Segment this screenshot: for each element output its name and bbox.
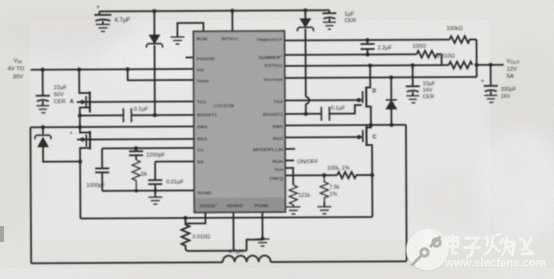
wire QB source drop (79, 162, 81, 219)
wire sense node rail (80, 217, 372, 219)
capacitor 4.7uF (94, 5, 130, 32)
node VIN at VBIAS jog (126, 67, 130, 71)
node rail QD drain (368, 64, 372, 68)
resistor 100k (446, 26, 476, 43)
wire sense return to pgnd (247, 240, 263, 251)
capacitor 10uF 16V CER (406, 65, 436, 103)
wire SW2 right drop (405, 125, 408, 261)
zener D3 (35, 127, 80, 162)
node junction top rail at zener D1 (152, 9, 156, 13)
ground 121k (286, 205, 300, 214)
resistor 0.010ohm current sense (181, 218, 246, 251)
wire MODE stub (285, 148, 295, 150)
node FREQ wire at QC source drop (370, 173, 374, 177)
label U1 pin names right (252, 37, 284, 182)
node QD source SW2 (369, 123, 373, 127)
node BOOST2 diode (304, 112, 308, 116)
wire SGND bottom (102, 189, 194, 191)
resistor 121k (289, 185, 310, 205)
wire 100ohm drop (441, 54, 443, 65)
resistor 100ohm (413, 44, 442, 58)
wire bottom rail right (271, 260, 407, 263)
node VOUTSNS schottky (389, 75, 393, 79)
capacitor 0.1uF boost2 (285, 105, 362, 121)
ground 7.5k (317, 202, 331, 214)
node junction top rail at diode D2 (303, 8, 307, 12)
wire SW1 (30, 125, 193, 128)
transistor QD (357, 65, 377, 125)
resistor 5k (132, 160, 147, 191)
resistor 0.010ohm output sense (437, 53, 473, 68)
node pgnd join (261, 237, 265, 241)
node rail sense+ (475, 63, 479, 67)
watermark text url (444, 258, 546, 270)
wire VOUT rail (285, 65, 504, 66)
wire bottom rail left (31, 262, 222, 263)
transistor QA (70, 69, 194, 127)
transistor QB (70, 126, 194, 161)
wire left drop to bottom rail (29, 127, 32, 263)
node junction top rail at IC pin (230, 9, 234, 13)
label ON/OFF (297, 159, 319, 165)
wire IC top pin stub (231, 11, 233, 31)
wire VBIAS jog (128, 69, 194, 80)
node sense resistor top (183, 216, 187, 220)
wire FREQ (285, 174, 337, 176)
label VOUT (507, 59, 521, 80)
node schottky anode SW2 (389, 123, 393, 127)
wire VSENSE+ to 100k (284, 39, 449, 42)
resistor 100k 1% (327, 166, 372, 179)
ground near IC top (170, 23, 203, 44)
wire 100k drop (475, 39, 477, 76)
wire VOS to 121k (285, 168, 293, 185)
wire ITH (102, 147, 194, 149)
node ITH at 2200pF (134, 146, 138, 150)
node 2.2uF top (365, 38, 369, 42)
wire PGND drop (261, 212, 263, 238)
node VIN at QA drain (77, 68, 81, 72)
label U1 pin names left (196, 36, 217, 196)
capacitor 1uF CER (322, 10, 356, 29)
edge smudge left (0, 226, 4, 242)
node QA source / boost1 cap (78, 114, 82, 118)
node QB source (78, 160, 82, 164)
watermark text brand glyphs (447, 234, 533, 257)
wire VOUTSNS (285, 77, 477, 78)
ground SGND (148, 191, 162, 205)
op-amp U1 LTC3729 controller (193, 31, 285, 212)
capacitor 0.01uF soft start (148, 161, 184, 190)
label U1 top and part number (198, 36, 269, 209)
node boost1 at D1 (153, 113, 157, 117)
ground PGND (256, 239, 270, 246)
wire TG2 (285, 99, 362, 101)
capacitor 2200pF (129, 148, 166, 160)
wire RUN stub (285, 159, 294, 161)
capacitor 0.1uF boost1 (80, 106, 194, 122)
capacitor 2.2uF (360, 40, 392, 55)
node SW1 at zener (41, 125, 45, 129)
wire SUMMER to 100ohm (285, 53, 417, 56)
wire top rail INTVCC (99, 10, 329, 15)
node FREQ at 7.5k (322, 173, 326, 177)
wire SENSE minus drop (232, 212, 234, 250)
resistor 7.5k 1% (320, 175, 340, 202)
capacitor 330uF 16V (481, 65, 517, 103)
wire SENSE plus stub (186, 212, 205, 223)
node SGND at ground (134, 189, 157, 193)
wire SW2 (285, 124, 406, 127)
inductor 4.7uH (223, 249, 271, 262)
node rail 330uF (489, 63, 493, 67)
node rail 10uF (411, 63, 415, 67)
node SW1 at QA/QB (78, 125, 82, 129)
wire PGOOD stub (186, 56, 194, 58)
capacitor 22uF 50V CER (36, 70, 68, 113)
node 2.2uF bottom (366, 53, 370, 57)
diode D1 boost1 (146, 11, 163, 113)
label VIN (8, 58, 25, 80)
node VIN at 22uF (41, 68, 45, 72)
diode D2 boost2 (297, 10, 314, 112)
watermark logo elecfans (406, 228, 449, 272)
transistor QC (285, 125, 377, 217)
wire VIN rail (31, 68, 194, 71)
wire SS (155, 160, 194, 162)
diode D4 schottky (386, 77, 397, 125)
capacitor 1000pF (86, 148, 109, 191)
